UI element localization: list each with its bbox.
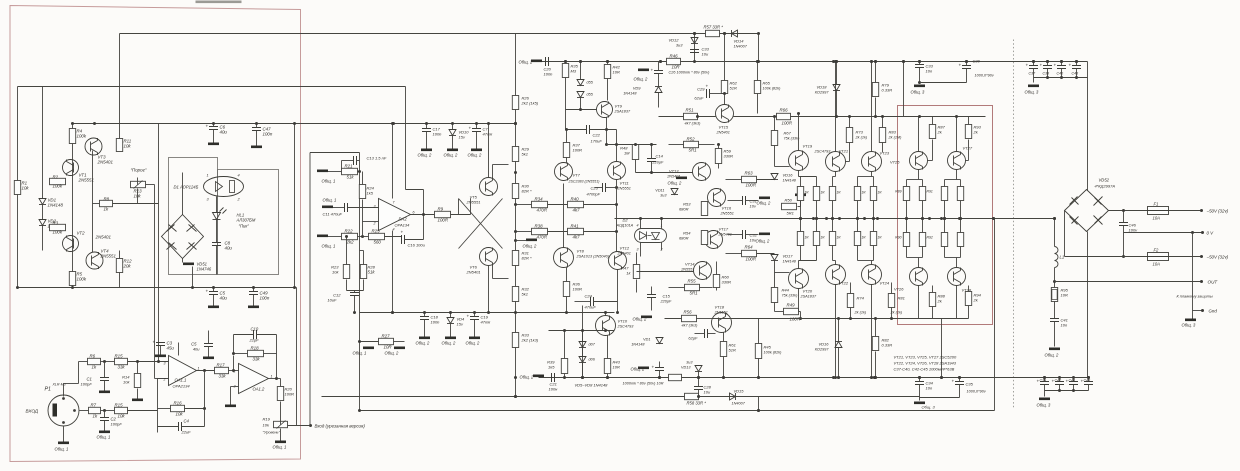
wire [1033,62,1035,66]
resistor R90 [903,233,909,247]
svg-text:R55: R55 [688,279,697,284]
wire [488,266,490,313]
wire [230,387,232,399]
wire [968,306,970,319]
svg-text:470R: 470R [537,235,548,240]
wire [658,93,660,108]
svg-text:1R: 1R [805,236,810,240]
transistor VT4 [86,252,103,269]
junction [449,311,452,314]
junction [423,311,426,314]
junction [874,317,877,320]
svg-text:+: + [1069,63,1072,68]
ground [641,316,652,319]
wire [294,124,296,288]
wire [774,146,776,167]
wire [549,330,615,332]
svg-text:VD14: VD14 [734,39,745,44]
diode VD14 [732,30,738,37]
svg-text:10k: 10k [118,414,126,419]
junction [905,217,908,220]
resistor R44 [771,288,777,303]
junction [514,395,517,398]
wire [635,160,637,173]
wire [932,307,934,319]
junction [825,217,828,220]
junction [604,311,607,314]
svg-text:+: + [652,365,655,370]
wire: protection tap riser [296,288,298,426]
svg-text:VT21: VT21 [839,149,849,154]
svg-text:1: 1 [207,174,209,178]
junction [965,60,968,63]
wire [873,246,875,261]
junction [615,230,618,233]
svg-text:40u: 40u [193,347,200,352]
wire [835,172,837,177]
svg-text:10R: 10R [613,365,620,370]
svg-text:Общ. 2: Общ. 2 [668,181,683,186]
junction [959,217,962,220]
diode VD18 [833,85,840,91]
svg-text:C26 1000mk * 80v (50v): C26 1000mk * 80v (50v) [669,71,711,75]
svg-text:2SC4793: 2SC4793 [814,150,832,154]
wire: VAS right bus upper [616,130,618,162]
wire [566,268,568,282]
wire [256,131,258,146]
svg-text:R67: R67 [784,131,792,136]
svg-text:C16 100u: C16 100u [408,243,426,248]
svg-text:33k: 33k [219,374,227,379]
junction [918,60,921,63]
resistor R50 [669,374,682,380]
wire [476,124,478,129]
wire [216,246,218,275]
svg-text:680R: 680R [679,207,689,212]
wire: DA2 lower rail [360,312,615,314]
wire: VT1 column [72,124,74,288]
wire [354,291,356,293]
wire [128,410,158,412]
wire [661,219,663,229]
wire [871,285,873,378]
wire [800,219,802,232]
svg-text:2N5551: 2N5551 [100,254,117,259]
resistor R74 [847,294,853,308]
junction [487,122,490,125]
svg-text:170uF: 170uF [591,139,603,144]
wire [185,408,205,410]
svg-text:R90: R90 [895,236,901,240]
junction [1201,231,1204,234]
svg-text:Общ. 2: Общ. 2 [519,60,534,65]
wire [216,197,218,213]
wire [363,280,365,291]
svg-text:1N4148: 1N4148 [783,260,797,264]
svg-text:470R: 470R [537,208,548,213]
svg-text:VD1: VD1 [643,338,650,342]
junction [831,217,834,220]
scan artifact strip [196,1,242,4]
svg-text:2SA1837: 2SA1837 [614,110,632,114]
wire [1065,256,1148,258]
svg-text:100R: 100R [782,121,793,126]
svg-text:C44: C44 [1069,379,1076,383]
junction [203,369,206,372]
capacitor C35 [955,382,964,385]
wire [362,222,364,237]
resistor R66 [777,113,791,119]
svg-text:22pF: 22pF [249,338,260,343]
ground [251,146,262,149]
svg-text:470uF: 470uF [585,305,597,310]
svg-text:100k: 100k [53,184,63,189]
resistor R95 [1051,288,1057,302]
svg-text:R89: R89 [895,190,901,194]
diode VD2 [39,220,46,226]
svg-text:1000mk * 80v (50v) 10R: 1000mk * 80v (50v) 10R [623,382,664,386]
wire [1088,385,1090,391]
fuse F1 [1148,207,1169,215]
junction [697,395,700,398]
svg-text:C15: C15 [663,294,671,299]
junction [722,376,725,379]
svg-text:10A: 10A [1153,262,1161,267]
wire [833,176,836,178]
wire [119,34,121,141]
capacitor C38 [1043,66,1052,69]
wire [734,116,777,118]
wire [698,116,716,118]
svg-text:+: + [153,340,156,345]
svg-text:100pF: 100pF [81,382,93,387]
junction [191,286,194,289]
junction [837,317,840,320]
junction [902,60,905,63]
wire [394,341,405,343]
transistor VT22 [826,265,846,285]
wire [582,363,584,378]
diode VD55b [577,92,584,98]
wire [158,378,169,380]
svg-text:2N5401: 2N5401 [466,270,481,275]
transistor VT16 [708,189,726,207]
ground [1049,348,1060,351]
svg-text:2: 2 [373,222,376,226]
resistor R30 [512,184,518,199]
junction [581,376,584,379]
wire [333,207,345,209]
wire [101,410,115,412]
svg-text:F2: F2 [1154,248,1160,253]
wire [582,348,584,357]
svg-text:3: 3 [164,362,166,366]
zener VD10 [449,130,456,136]
svg-text:R73: R73 [856,130,864,135]
junction [965,60,968,63]
junction [203,407,206,410]
wire [757,179,775,181]
resistor R5 [69,272,75,286]
svg-text:10R: 10R [613,70,620,75]
svg-text:3: 3 [637,248,639,252]
wire [1061,69,1063,78]
junction [514,239,517,242]
wire [651,145,653,159]
wire [362,200,364,206]
junction [473,311,476,314]
wire [192,267,194,288]
junction [799,217,802,220]
wire [584,204,617,206]
svg-text:75k (33k): 75k (33k) [784,137,801,141]
wire: front-end supply rail [73,123,516,125]
svg-text:C37-C40, C42-C45 1000мкФ*63В: C37-C40, C42-C45 1000мкФ*63В [894,367,955,372]
resistor R71 [813,187,819,201]
wire [907,179,923,181]
wire [928,160,933,162]
svg-text:1R: 1R [837,236,842,240]
svg-text:10k: 10k [263,423,270,428]
wire [213,130,215,143]
wire [694,34,696,62]
junction [579,60,582,63]
wire [1064,211,1066,257]
svg-text:62pF: 62pF [688,336,698,341]
wire [204,371,206,409]
wire [253,295,255,306]
wire [563,184,565,248]
resistor R4 [69,129,75,144]
wire [835,62,837,152]
junction [1200,255,1203,258]
junction [756,60,759,63]
svg-text:10k: 10k [124,144,132,149]
junction [606,376,609,379]
svg-text:330R: 330R [724,154,734,159]
junction [835,115,838,118]
capacitor C42 [1055,382,1064,385]
capacitor C24 [591,297,594,306]
wire: lower bias rail [322,396,920,398]
svg-text:51k: 51k [347,175,355,180]
wire [906,219,908,233]
resistor R14 [134,374,140,388]
resistor R3 [50,224,66,230]
junction [693,32,696,35]
wire [875,352,877,378]
svg-text:100n: 100n [263,132,273,137]
wire [80,410,89,412]
capacitor C11 [345,203,348,212]
junction [425,122,428,125]
svg-text:10k: 10k [123,380,130,385]
junction [697,395,700,398]
junction [1058,376,1061,379]
wire [838,319,840,342]
wire [659,116,684,118]
wire [474,313,476,317]
wire [277,378,281,380]
svg-text:R64: R64 [745,245,754,250]
svg-text:5k1: 5k1 [522,152,528,157]
svg-text:R65: R65 [763,81,771,86]
svg-text:R45: R45 [764,345,772,350]
wire [158,408,171,410]
wire [63,384,65,397]
svg-text:Общ. 3: Общ. 3 [911,90,926,95]
svg-text:VD17: VD17 [783,254,794,259]
resistor R12 [116,259,122,273]
junction [918,376,921,379]
transistor VT17 [705,231,723,249]
resistor R31 [512,251,518,266]
wire [941,319,943,378]
resistor R64 [742,250,757,256]
junction [1075,60,1078,63]
resistor R82 [872,337,878,351]
wire [1087,232,1089,378]
svg-text:Общ. 1: Общ. 1 [322,179,336,184]
diode VD1 [39,199,46,205]
ground [203,357,214,360]
wire [758,319,760,344]
wire [919,398,921,401]
svg-text:15v: 15v [457,322,464,327]
svg-text:Общ. 3: Общ. 3 [1037,403,1052,408]
wire [452,124,454,130]
wire [566,158,568,164]
capacitor C30 [962,66,971,69]
svg-text:+: + [469,126,472,131]
svg-text:100k: 100k [53,230,63,235]
resistor R56 [682,315,697,321]
wire [798,171,800,177]
svg-text:VD15: VD15 [734,389,745,394]
resistor R92b [957,233,963,247]
svg-text:KD2997: KD2997 [815,91,830,95]
ground [914,402,925,405]
svg-text:4700pF: 4700pF [587,192,601,197]
junction [605,143,608,146]
svg-text:20k: 20k [123,264,132,269]
junction [831,217,834,220]
capacitor C2 [100,418,109,421]
wire [233,356,235,371]
ground [759,233,770,236]
svg-text:"Пик": "Пик" [239,224,250,229]
op-amp OA1.1 [169,356,197,386]
svg-text:C35: C35 [966,382,974,387]
svg-text:10k: 10k [332,270,339,275]
capacitor C16 [402,235,405,244]
svg-text:220pF: 220pF [660,300,672,304]
wire [450,324,452,337]
svg-text:Общ. 1: Общ. 1 [273,445,287,450]
wire [580,62,582,80]
junction [958,376,961,379]
svg-text:P1: P1 [45,387,51,393]
junction [1075,76,1078,79]
capacitor C10 [254,330,257,339]
wire [836,91,838,117]
wire [800,312,802,319]
wire [960,247,962,258]
junction [616,311,619,314]
svg-text:R19: R19 [263,417,271,422]
resistor R23 [343,265,349,279]
svg-text:5R1: 5R1 [690,291,699,296]
junction [696,115,699,118]
svg-text:VD18: VD18 [816,85,827,90]
svg-text:1000,0*90v: 1000,0*90v [967,390,987,394]
wire [968,140,970,161]
wire [346,237,348,265]
wire [658,62,660,71]
wire [873,201,875,219]
capacitor C15 [647,295,656,298]
svg-text:Общ. 1: Общ. 1 [97,435,111,440]
svg-text:OUT: OUT [1208,280,1219,285]
wire [1047,62,1049,66]
svg-text:0.33R: 0.33R [882,343,893,348]
junction [604,329,607,332]
junction [232,369,235,372]
wire [882,143,884,153]
wire [488,124,490,178]
wire [1033,78,1035,83]
ground [322,206,333,209]
junction [863,217,866,220]
svg-text:1N4148: 1N4148 [631,343,645,347]
junction [856,217,859,220]
svg-text:100R: 100R [573,287,583,292]
svg-text:100н: 100н [549,387,559,392]
wire [137,362,139,374]
junction [93,122,96,125]
junction [275,377,278,380]
svg-text:R16: R16 [174,401,183,406]
svg-text:5R1: 5R1 [689,148,698,153]
wire [362,172,364,185]
svg-text:C10: C10 [251,327,259,332]
wire [726,253,742,255]
junction [849,317,852,320]
svg-text:2SC2383 (2N5551): 2SC2383 (2N5551) [568,180,600,184]
svg-text:OA1.1: OA1.1 [175,378,187,383]
wire [584,231,617,233]
LED HL1 [213,208,227,220]
wire [800,177,802,187]
ground [363,347,374,350]
wire [968,117,970,125]
svg-text:1R: 1R [837,191,842,195]
junction [1122,209,1125,212]
junction [905,217,908,220]
svg-text:VD11: VD11 [655,189,664,193]
junction [615,203,618,206]
capacitor C37 [1029,66,1038,69]
svg-text:100n: 100n [544,72,554,77]
wire [1073,378,1075,382]
junction [697,376,700,379]
resistor R93 [965,125,971,139]
wire [832,246,834,261]
wire [233,335,235,354]
svg-text:100R: 100R [285,392,295,397]
svg-text:VT12: VT12 [620,246,630,251]
junction [874,60,877,63]
